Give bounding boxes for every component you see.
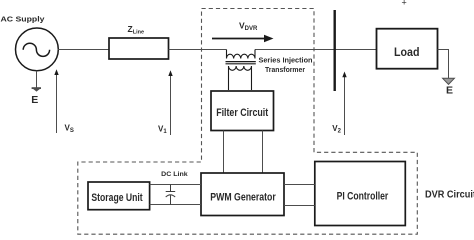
svg-text:Load: Load [394,45,420,59]
AC source [16,28,59,71]
node V1 arrow [170,74,172,135]
impedance ZLine [109,38,169,59]
bus bar [334,10,336,91]
node V2 arrow [344,75,346,135]
PI controller [315,162,406,226]
wire PWM to PI lower [284,205,315,207]
wire transformer to load [255,49,377,51]
storage unit [88,182,150,210]
wire filter to PWM left [223,131,225,174]
DVR dashed boundary [78,9,418,235]
svg-text:DVR Circuit: DVR Circuit [425,190,474,201]
wire Zline to transformer [169,49,227,51]
wire DC link upper [150,184,201,186]
svg-text:Series Injection: Series Injection [259,57,313,64]
svg-text:E: E [31,94,38,106]
ground lead [36,71,38,88]
svg-text:Transformer: Transformer [265,67,305,74]
svg-text:E: E [446,84,453,96]
svg-text:AC Supply: AC Supply [1,14,46,23]
ground (load) [443,78,455,84]
ground [32,87,41,91]
node VS arrow [56,73,58,133]
filter circuit [211,91,274,131]
capacitor C (DC link) [166,185,176,205]
wire load to ground [438,50,449,79]
wire source to Zline [58,49,109,51]
svg-text:DC Link: DC Link [161,171,188,178]
transformer core [226,61,256,63]
svg-text:+: + [402,0,407,8]
VDVR arrow [212,38,269,40]
transformer primary [227,50,256,59]
svg-text:PI Controller: PI Controller [337,190,389,202]
wire DC link lower [150,204,201,206]
svg-text:Storage Unit: Storage Unit [91,192,143,204]
load [377,29,438,69]
PWM generator [201,173,284,216]
transformer secondary [229,66,252,90]
svg-text:Filter Circuit: Filter Circuit [216,107,268,119]
wire filter to PWM right [262,131,264,174]
wire PWM to PI upper [284,184,315,186]
svg-text:PWM Generator: PWM Generator [210,192,276,204]
